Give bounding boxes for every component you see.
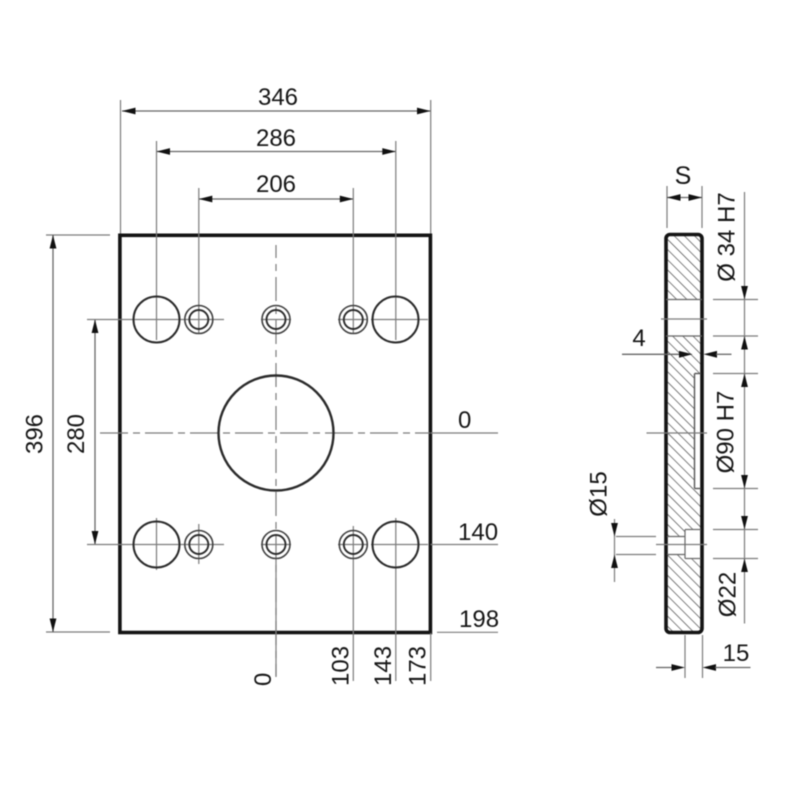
bottom row centerline right segment [371, 544, 428, 546]
section bar outline [666, 235, 702, 633]
ring hole bottom 2 inner [344, 535, 363, 554]
dimension 4 arrow right-pointing [679, 351, 693, 358]
dimension 206 line [199, 198, 353, 200]
dimension 346 extension line right [430, 100, 432, 235]
counterbore 22 step line [684, 530, 686, 559]
svg-text:0: 0 [250, 673, 277, 686]
top row centerline left segment [87, 319, 224, 321]
ordinate line 173 [430, 633, 432, 681]
dimension 206 arrow right [340, 196, 354, 203]
extension line cbore22 bottom [713, 558, 758, 560]
dimension Ø15 extension bottom [616, 554, 656, 556]
dimension Ø22 arrow down [741, 516, 748, 530]
dimension 346 arrow left [122, 108, 136, 115]
dimension S arrow right [689, 194, 703, 201]
svg-text:0: 0 [458, 407, 471, 434]
dimension 4 arrow left-pointing [704, 351, 718, 358]
recess 90 H7 boundary line [694, 374, 696, 489]
dimension S line [667, 197, 702, 199]
ordinate line 103 [352, 526, 354, 681]
bottom row centerline ring2 segment [338, 544, 368, 546]
recess 90 top edge [695, 373, 702, 375]
svg-text:198: 198 [459, 606, 499, 633]
dimension 280 arrow bottom [92, 531, 99, 545]
hole column line bottom-left large [156, 518, 158, 570]
ring hole top 1 inner [189, 310, 208, 329]
svg-text:103: 103 [327, 646, 354, 686]
dimension 15 extension left [684, 635, 686, 678]
svg-text:Ø 34 H7: Ø 34 H7 [714, 192, 741, 281]
ordinate line 143 [395, 518, 397, 681]
ring hole bottom 1 inner [189, 535, 208, 554]
ring hole top 2 outer [339, 306, 367, 334]
dimension 396 arrow bottom [50, 619, 57, 633]
side bottom row centerline [656, 544, 707, 546]
label line 198 [437, 631, 498, 633]
recess 90 bottom edge [695, 488, 702, 490]
hole column line top-right large [395, 141, 397, 340]
dimension 396 extension line top [46, 234, 110, 236]
ring hole bottom 1 outer [185, 531, 213, 559]
side main centerline [647, 432, 708, 434]
bottom ordinate line 0 [275, 558, 277, 677]
svg-text:Ø22: Ø22 [715, 572, 742, 617]
hole column line bottom ring 1 [198, 524, 200, 564]
ring hole top center outer [262, 306, 290, 334]
right dimension chain line [744, 192, 746, 624]
svg-text:S: S [675, 162, 692, 190]
hole column line top-left large [156, 141, 158, 340]
bottom row centerline left segment [87, 544, 224, 546]
dimension 206 arrow left [199, 196, 213, 203]
hole 15 bottom edge [667, 554, 685, 556]
dimension 346 line [122, 110, 431, 112]
dimension 15 tail left [656, 667, 672, 669]
counterbore 22 bottom edge [685, 558, 701, 560]
dimension 396 extension line bottom [46, 631, 110, 633]
hole column line top ring 1 [198, 188, 200, 334]
ring hole bottom center outer [262, 531, 290, 559]
extension line bore34 bottom [713, 335, 758, 337]
dimension Ø15 extension top [616, 536, 656, 538]
dimension Ø15 arrow down [611, 523, 618, 537]
label line 0 (right) [431, 432, 499, 434]
dimension 280 line [94, 320, 96, 545]
dimension Ø34 arrow down [741, 286, 748, 300]
dimension Ø90 arrow down [741, 475, 748, 489]
dimension 4 tail right [716, 353, 732, 355]
section hatch fill [666, 235, 702, 633]
dimension Ø22 arrow up [741, 559, 748, 573]
extension line recess top [713, 373, 758, 375]
svg-text:206: 206 [256, 171, 296, 198]
dimension 15 tail right [715, 667, 751, 669]
bore 34 bottom edge [666, 335, 702, 337]
label line 140 [431, 544, 499, 546]
svg-text:4: 4 [632, 325, 645, 352]
ring hole bottom center inner [267, 535, 286, 554]
dimension Ø15 line [614, 519, 616, 582]
bottom row centerline center segment [261, 544, 291, 546]
svg-text:Ø15: Ø15 [586, 471, 613, 516]
extension line bore34 top [713, 299, 758, 301]
dimension Ø34 arrow up [741, 336, 748, 350]
dimension 286 arrow left [157, 148, 171, 155]
svg-text:143: 143 [370, 646, 397, 686]
svg-text:396: 396 [22, 414, 49, 454]
svg-text:173: 173 [405, 646, 432, 686]
svg-text:Ø90 H7: Ø90 H7 [713, 391, 740, 474]
dimension Ø90 arrow up [741, 374, 748, 388]
plate outline [120, 235, 431, 632]
ring hole top 2 inner [344, 310, 363, 329]
hole bottom-right large [373, 522, 419, 568]
dimension S extension right [701, 186, 703, 228]
ring hole top center inner [267, 310, 286, 329]
dimension 396 arrow top [50, 235, 57, 249]
dimension 346 arrow right [417, 108, 431, 115]
dimension 286 arrow right [382, 148, 396, 155]
top row centerline right segment [371, 319, 428, 321]
ring hole bottom 2 outer [339, 531, 367, 559]
counterbore 22 top edge [685, 529, 701, 531]
dimension 280 arrow top [92, 320, 99, 334]
svg-text:346: 346 [258, 84, 298, 111]
dimension 15 arrow left-pointing [703, 664, 717, 671]
vertical center line (dashed) [275, 245, 277, 676]
dimension 396 line [52, 235, 54, 632]
ring hole top 1 outer [185, 306, 213, 334]
central bore circle [219, 376, 334, 491]
hole top-left large [134, 297, 180, 343]
dimension 15 extension right [702, 635, 704, 678]
svg-text:280: 280 [63, 414, 90, 454]
top row centerline center segment [261, 319, 291, 321]
hole 15 top edge [667, 536, 685, 538]
dimension S arrow left [667, 194, 681, 201]
hole column line top ring 2 [352, 188, 354, 334]
dimension 346 extension line left [120, 100, 122, 235]
dimension 15 arrow right-pointing [672, 664, 686, 671]
bore 34 centerline [661, 318, 707, 320]
horizontal main centerline (dash-dot) [100, 432, 430, 434]
dimension 4 leader left [622, 353, 680, 355]
svg-text:286: 286 [256, 125, 296, 152]
svg-text:140: 140 [458, 519, 498, 546]
top row centerline ring2 segment [338, 319, 368, 321]
dimension S extension left [666, 186, 668, 228]
svg-text:15: 15 [723, 640, 750, 667]
extension line recess bottom [713, 488, 758, 490]
dimension Ø15 arrow up [611, 555, 618, 569]
hole top-right large [373, 297, 419, 343]
extension line cbore22 top [713, 529, 758, 531]
hole bottom-left large [134, 522, 180, 568]
bore 34 top edge [666, 299, 702, 301]
dimension 286 line [157, 151, 396, 153]
